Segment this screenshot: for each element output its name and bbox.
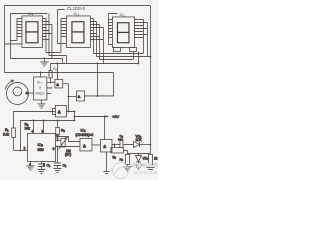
nand gate G3 <box>55 105 66 117</box>
svg-text:2: 2 <box>23 146 25 150</box>
wire display1 left feed <box>4 43 22 45</box>
svg-text:24k: 24k <box>24 126 30 130</box>
labels displays <box>27 6 125 95</box>
svg-text:555: 555 <box>37 148 43 152</box>
svg-text:8: 8 <box>41 129 43 133</box>
wire G4 out <box>92 144 100 146</box>
diode VD5 <box>134 153 142 169</box>
capacitor C1 <box>38 161 45 169</box>
svg-text:R3: R3 <box>61 128 65 133</box>
svg-text:C1: C1 <box>46 163 50 168</box>
svg-text:VD5: VD5 <box>142 156 148 161</box>
wire staircase d2-d3 <box>93 51 150 59</box>
wire display1 left bus <box>10 18 17 40</box>
svg-text:IC5: IC5 <box>37 143 43 148</box>
wire G2 input <box>68 95 76 97</box>
wire bottom rail left-to-gate2 <box>4 71 113 73</box>
IC4 display digit module <box>22 16 43 48</box>
svg-text:R8: R8 <box>53 67 57 72</box>
wire display2 left pins <box>61 18 66 52</box>
ground under displays <box>40 58 48 65</box>
svg-text:(2C): (2C) <box>65 152 71 156</box>
capacitor C2 <box>54 146 61 168</box>
svg-text:a: a <box>39 85 41 89</box>
ground under sensor <box>37 99 45 108</box>
opto sensor module IC7 <box>34 77 47 100</box>
wire display1 bus verticals <box>46 13 52 58</box>
potentiometer RP <box>61 138 65 147</box>
wire display3 bottom drop <box>137 51 139 63</box>
wire display1 right pins <box>42 18 52 39</box>
wire supply rail <box>20 119 74 121</box>
capacitor C5 <box>120 141 134 148</box>
wire G5 out <box>112 143 120 145</box>
svg-text:IC2: IC2 <box>119 12 125 18</box>
wire display3 left loop <box>108 13 117 44</box>
svg-text:&: & <box>78 94 81 99</box>
svg-text:6: 6 <box>52 147 54 151</box>
digit 8 of IC2 <box>117 23 129 43</box>
wire display2 bus verticals <box>93 18 103 63</box>
wire common line <box>10 58 62 63</box>
wire right border <box>149 5 151 153</box>
resistor R8 <box>49 63 51 70</box>
wire G3 output <box>66 111 74 120</box>
svg-text:+9V: +9V <box>112 114 120 119</box>
wire G5 bottom <box>103 152 109 174</box>
svg-text:4: 4 <box>31 129 33 133</box>
watermark <box>112 162 128 178</box>
wire 9V feed <box>74 115 108 117</box>
svg-text:&: & <box>83 143 86 148</box>
svg-text:2CK: 2CK <box>135 138 142 142</box>
svg-text:1k: 1k <box>154 156 158 160</box>
resistor R7 loop <box>113 144 115 147</box>
wire display3 right pins <box>134 19 147 37</box>
wire display3 left pins <box>108 19 112 37</box>
wire gate2 output vertical <box>84 72 113 96</box>
svg-text:33n: 33n <box>118 138 123 142</box>
wire disc to sensor <box>28 92 33 94</box>
wire left border <box>3 5 5 72</box>
diode VD6 <box>133 141 139 147</box>
digit 8 of IC4 <box>26 22 38 43</box>
svg-text:R7: R7 <box>112 155 116 160</box>
wire G5 top input <box>103 116 105 139</box>
junction dots <box>20 56 152 152</box>
digit 8 of IC3 <box>72 22 84 43</box>
wire 555 pin7 <box>55 139 60 141</box>
wire sensor aux stubs <box>47 88 53 94</box>
wire 555 pin3 out <box>55 136 79 141</box>
sensor disc <box>6 82 28 104</box>
wire 555 pin2 <box>13 149 27 151</box>
wire display2 right pins <box>90 18 103 39</box>
svg-text:5.1k: 5.1k <box>3 132 9 136</box>
wire long node line <box>50 62 138 64</box>
wire clock feed to displays <box>96 63 98 95</box>
arrow +9V <box>105 115 108 117</box>
wire staircase d1-d2 <box>46 52 66 63</box>
timer IC5 555 <box>27 133 55 161</box>
wire 555 pin6 to G4 <box>55 145 79 147</box>
wire sensor output <box>47 81 55 83</box>
nand gate G4 <box>80 138 92 151</box>
nand gate G1 <box>55 79 63 88</box>
wire G3 input <box>13 108 55 114</box>
wire 555 pin1 ground <box>26 161 34 170</box>
wire G1 out down <box>63 84 69 112</box>
nand gate G2 <box>76 91 84 101</box>
resistor R3 <box>56 120 58 127</box>
svg-text:C2: C2 <box>62 163 66 168</box>
wire display1 left pins <box>17 18 22 36</box>
resistor R10 <box>148 154 152 165</box>
wire display2 left loop <box>57 9 66 43</box>
svg-text:R9: R9 <box>119 157 123 162</box>
svg-text:CL102×3: CL102×3 <box>67 6 86 11</box>
IC3 display digit module <box>66 16 90 48</box>
svg-text:&: & <box>58 109 61 114</box>
svg-text:KD(C): KD(C) <box>35 91 44 95</box>
svg-text:(CD4011)×2: (CD4011)×2 <box>75 133 93 137</box>
nand gate G5 <box>100 139 112 152</box>
wire display3 bus verticals <box>143 19 147 56</box>
svg-text:&: & <box>56 82 59 87</box>
svg-text:IC4: IC4 <box>27 11 33 17</box>
wire bottom right feed <box>127 152 150 154</box>
disc rotation arrow <box>5 81 13 90</box>
svg-text:IC3: IC3 <box>73 11 79 17</box>
resistor R1 <box>12 111 14 127</box>
wire sensor top stub <box>39 72 41 77</box>
IC2 display digit module <box>112 17 134 48</box>
svg-text:&: & <box>103 144 106 149</box>
wire top border <box>4 4 150 6</box>
display3 bottom pin blocks <box>113 47 120 51</box>
wire display1 top loop <box>10 13 47 58</box>
